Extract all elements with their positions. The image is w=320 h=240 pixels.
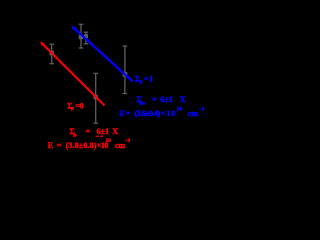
red model line with arrowhead <box>40 42 104 106</box>
blue model line with arrowhead <box>72 26 133 81</box>
marker on EB2 <box>79 35 83 39</box>
error bar EB3 <box>93 73 98 123</box>
error bar M1 <box>84 32 89 44</box>
red eq line 1 subscript marks <box>96 136 99 137</box>
error bar EB2 <box>79 24 84 48</box>
svg-text:Σp=1: Σp=1 <box>135 75 153 85</box>
error bar EB1 <box>49 44 54 64</box>
marker on EB3 <box>94 95 98 99</box>
error bar EB4 <box>123 46 128 94</box>
marker on EB1 <box>50 51 54 55</box>
marker M1 <box>84 34 88 38</box>
svg-text:Σp=0: Σp=0 <box>67 101 84 111</box>
marker on EB4 <box>123 72 128 77</box>
